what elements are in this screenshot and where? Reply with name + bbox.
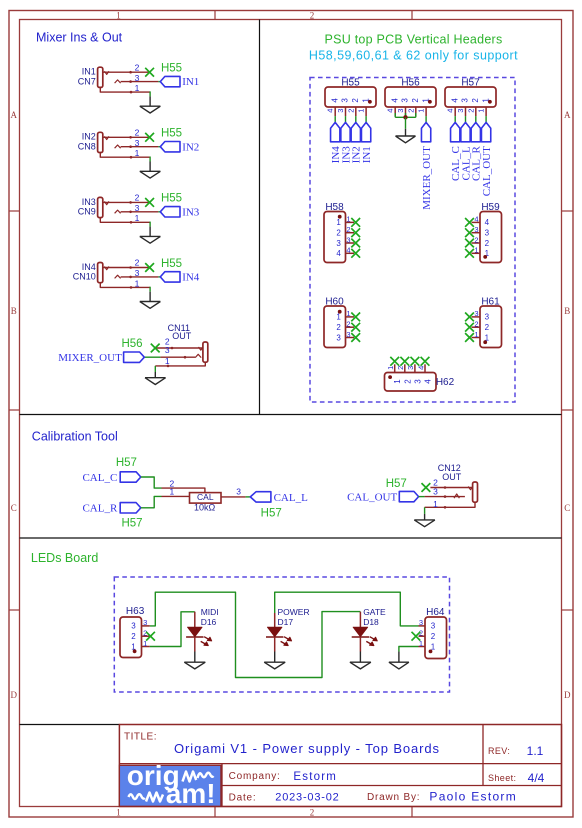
CN12 pin 2 bbox=[430, 487, 471, 489]
pin header H64 bbox=[425, 617, 447, 659]
H63 pin 1 bbox=[142, 646, 150, 648]
H57 pin 1 bbox=[485, 107, 487, 116]
svg-text:Calibration Tool: Calibration Tool bbox=[32, 429, 118, 443]
D16 cathode wire to ground bbox=[194, 637, 196, 652]
H60 pin 2 bbox=[346, 326, 355, 328]
ground bbox=[140, 170, 161, 172]
LEDs dashed board box bbox=[114, 577, 449, 692]
hierarchical label IN4 bbox=[160, 272, 180, 282]
svg-text:2: 2 bbox=[310, 10, 315, 20]
svg-text:3: 3 bbox=[431, 622, 436, 631]
H57 pin1 marker dot bbox=[488, 100, 492, 104]
hierarchical label IN1 (vertical) bbox=[361, 122, 370, 141]
svg-text:2: 2 bbox=[346, 225, 350, 234]
svg-text:3: 3 bbox=[396, 109, 405, 113]
svg-text:H56: H56 bbox=[401, 77, 420, 88]
svg-text:4: 4 bbox=[336, 249, 341, 258]
CN8 pin 3 bbox=[121, 146, 159, 148]
hierarchical label CAL_C (vertical) bbox=[451, 122, 460, 141]
H58 pin1 marker dot bbox=[338, 215, 342, 219]
svg-text:4/4: 4/4 bbox=[528, 771, 545, 785]
pot pin 3 bbox=[221, 496, 246, 498]
section divider h2 bbox=[20, 537, 562, 539]
frame zone ticks bbox=[214, 11, 216, 20]
svg-text:MIXER_OUT: MIXER_OUT bbox=[58, 352, 122, 364]
LED D16 bbox=[194, 612, 196, 628]
no-connect X on H62 pin 3 bbox=[411, 357, 420, 366]
no-connect X on H62 pin 2 bbox=[400, 357, 409, 366]
svg-text:3: 3 bbox=[165, 345, 170, 355]
H64 pin 3 bbox=[419, 625, 426, 627]
no-connect X on H60 pin 1 bbox=[351, 313, 360, 322]
svg-text:1: 1 bbox=[116, 10, 121, 20]
no-connect X on H61 pin 1 bbox=[465, 333, 474, 342]
svg-text:H55: H55 bbox=[161, 63, 182, 75]
svg-text:C: C bbox=[11, 503, 17, 513]
H59 pin 2 bbox=[472, 242, 481, 244]
svg-text:1.1: 1.1 bbox=[527, 744, 544, 758]
svg-text:C: C bbox=[564, 503, 570, 513]
svg-text:3: 3 bbox=[433, 487, 438, 497]
svg-text:1: 1 bbox=[346, 215, 350, 224]
svg-text:3: 3 bbox=[456, 109, 465, 113]
svg-text:TITLE:: TITLE: bbox=[124, 732, 157, 743]
svg-text:3: 3 bbox=[346, 330, 350, 339]
svg-text:H57: H57 bbox=[386, 478, 407, 490]
ground bbox=[140, 301, 161, 303]
wire H64 pin1 to ground bbox=[399, 647, 419, 652]
wire pin1 to ground bbox=[149, 222, 151, 227]
junction bbox=[403, 115, 407, 119]
no-connect X on H62 pin 1 bbox=[390, 357, 399, 366]
svg-text:1: 1 bbox=[170, 486, 175, 496]
pot pin 1 bbox=[162, 495, 190, 497]
potentiometer CAL bbox=[190, 493, 222, 504]
svg-text:H57: H57 bbox=[121, 518, 142, 530]
H60 pin 3 bbox=[346, 337, 355, 339]
CN10 pin 1 bbox=[100, 283, 150, 288]
pin header H56 bbox=[385, 87, 436, 107]
CN11 pin 2 bbox=[155, 347, 202, 349]
H58 pin 3 bbox=[346, 242, 355, 244]
H58 pin 4 bbox=[346, 252, 355, 254]
svg-text:H55: H55 bbox=[341, 77, 360, 88]
wire pin3 to label bbox=[158, 276, 160, 278]
svg-text:1: 1 bbox=[135, 278, 140, 288]
no-connect X on H58 pin 4 bbox=[351, 249, 360, 258]
H55 pin 1 bbox=[365, 107, 367, 116]
H57 pin 3 bbox=[465, 107, 467, 116]
pin header H59 bbox=[480, 212, 502, 263]
D16 emission arrows bbox=[204, 637, 210, 640]
svg-text:4: 4 bbox=[330, 98, 339, 103]
ground bbox=[140, 105, 161, 107]
svg-text:Drawn By:: Drawn By: bbox=[367, 792, 420, 803]
svg-text:H64: H64 bbox=[426, 607, 445, 618]
no-connect X on CN9 pin 2 bbox=[145, 198, 154, 207]
H62 pin 1 bbox=[394, 364, 396, 372]
pin header H62 bbox=[385, 373, 437, 392]
no-connect X on CN12 pin 2 bbox=[422, 483, 431, 492]
wire pin to label bbox=[345, 116, 347, 122]
wires pins 4,3,2 to ground bbox=[394, 113, 396, 117]
wire pin to label bbox=[355, 116, 357, 122]
svg-text:3: 3 bbox=[406, 366, 415, 370]
svg-text:OUT: OUT bbox=[442, 472, 462, 482]
svg-text:2: 2 bbox=[431, 632, 436, 641]
H60 pin1 marker dot bbox=[338, 310, 342, 314]
no-connect X on H61 pin 3 bbox=[465, 313, 474, 322]
wire pin to label bbox=[485, 116, 487, 122]
svg-text:3: 3 bbox=[131, 622, 136, 631]
D17 cathode wire to ground bbox=[274, 637, 276, 652]
CN11 pin 3 bbox=[160, 356, 195, 358]
no-connect X on H58 pin 1 bbox=[351, 218, 360, 227]
no-connect X on H59 pin 2 bbox=[465, 239, 474, 248]
no-connect X on CN8 pin 2 bbox=[145, 133, 154, 142]
svg-text:PSU top PCB Vertical Headers: PSU top PCB Vertical Headers bbox=[325, 33, 503, 47]
hierarchical label IN3 (vertical) bbox=[341, 122, 350, 141]
svg-text:3: 3 bbox=[336, 109, 345, 113]
svg-text:1: 1 bbox=[474, 246, 478, 255]
section divider h1 bbox=[20, 414, 562, 416]
svg-text:1: 1 bbox=[336, 313, 341, 322]
H59 pin 3 bbox=[472, 232, 481, 234]
LED D18 bbox=[359, 612, 361, 628]
svg-text:IN1: IN1 bbox=[361, 146, 373, 163]
svg-text:1: 1 bbox=[116, 807, 121, 817]
wire pin1 to ground bbox=[149, 91, 151, 96]
svg-text:Paolo Estorm: Paolo Estorm bbox=[429, 790, 517, 804]
no-connect X on H59 pin 3 bbox=[465, 228, 474, 237]
svg-text:1: 1 bbox=[386, 366, 395, 370]
svg-text:2: 2 bbox=[336, 323, 341, 332]
H60 pin 1 bbox=[346, 316, 355, 318]
no-connect X on CN7 pin 2 bbox=[145, 68, 154, 77]
svg-text:1: 1 bbox=[135, 213, 140, 223]
svg-text:3: 3 bbox=[419, 618, 423, 627]
svg-text:CAL_L: CAL_L bbox=[274, 492, 309, 504]
LED D17 bbox=[274, 613, 276, 627]
svg-text:CAL: CAL bbox=[197, 492, 214, 502]
svg-text:2: 2 bbox=[474, 320, 478, 329]
H61 pin1 marker dot bbox=[483, 340, 487, 344]
svg-text:3: 3 bbox=[336, 239, 341, 248]
hierarchical label CAL_R (vertical) bbox=[471, 122, 480, 141]
svg-text:3: 3 bbox=[341, 98, 350, 103]
no-connect X on H62 pin 4 bbox=[421, 357, 430, 366]
wire pin to label bbox=[454, 116, 456, 122]
ground bbox=[414, 519, 435, 521]
svg-text:10kΩ: 10kΩ bbox=[194, 502, 216, 512]
ground bbox=[389, 661, 409, 663]
svg-text:1: 1 bbox=[135, 148, 140, 158]
ground bbox=[145, 377, 166, 379]
hierarchical label CAL_L bbox=[250, 492, 271, 502]
svg-text:IN4: IN4 bbox=[82, 262, 96, 272]
H61 pin 2 bbox=[472, 326, 481, 328]
H56 pin 1 bbox=[425, 107, 427, 116]
H55 pin 3 bbox=[345, 107, 347, 116]
svg-text:3: 3 bbox=[135, 203, 140, 213]
svg-text:4: 4 bbox=[346, 246, 350, 255]
svg-text:CN8: CN8 bbox=[78, 141, 96, 151]
svg-text:H59: H59 bbox=[481, 202, 500, 213]
svg-text:MIXER_OUT: MIXER_OUT bbox=[421, 146, 433, 210]
H61 pin 3 bbox=[472, 316, 481, 318]
wire pin1 to ground bbox=[424, 507, 426, 514]
no-connect X on H59 pin 1 bbox=[465, 249, 474, 258]
svg-text:3: 3 bbox=[413, 379, 422, 384]
svg-text:2: 2 bbox=[336, 229, 341, 238]
svg-text:2: 2 bbox=[485, 239, 490, 248]
wire pin3 to label bbox=[158, 211, 160, 213]
title block outline bbox=[119, 725, 561, 807]
hierarchical label IN3 bbox=[160, 207, 180, 217]
svg-text:IN4: IN4 bbox=[182, 272, 200, 284]
wire pin3 to CAL_L bbox=[246, 496, 251, 498]
svg-text:Company:: Company: bbox=[229, 771, 281, 782]
wire pin3 to label bbox=[158, 81, 160, 83]
H64 pin 1 bbox=[419, 646, 426, 648]
svg-text:IN2: IN2 bbox=[82, 132, 96, 142]
svg-text:1: 1 bbox=[477, 109, 486, 113]
svg-text:H56: H56 bbox=[121, 338, 142, 350]
CN9 pin 1 bbox=[100, 217, 150, 222]
H55 pin1 marker dot bbox=[368, 100, 372, 104]
H64 pin1 marker dot bbox=[429, 650, 433, 654]
CN10 pin 3 bbox=[121, 276, 159, 278]
svg-text:H57: H57 bbox=[461, 77, 480, 88]
svg-text:3: 3 bbox=[336, 333, 341, 342]
pin header H61 bbox=[480, 306, 502, 348]
no-connect X on H58 pin 2 bbox=[351, 228, 360, 237]
PSU dashed support box bbox=[310, 78, 515, 403]
svg-text:H58: H58 bbox=[325, 202, 344, 213]
wire pin to label bbox=[365, 116, 367, 122]
svg-text:CAL_OUT: CAL_OUT bbox=[481, 146, 493, 196]
audio jack CN8 bbox=[98, 132, 103, 152]
svg-text:1: 1 bbox=[417, 109, 426, 113]
svg-text:3: 3 bbox=[236, 486, 241, 496]
svg-text:A: A bbox=[564, 110, 571, 120]
CN12 pin 1 bbox=[425, 502, 475, 507]
H56 pin 4 bbox=[394, 107, 396, 116]
svg-text:3: 3 bbox=[135, 73, 140, 83]
svg-text:4: 4 bbox=[424, 379, 433, 384]
wire pin1 to ground bbox=[149, 157, 151, 162]
svg-text:1: 1 bbox=[357, 109, 366, 113]
D18 emission arrows bbox=[370, 637, 376, 640]
svg-text:IN1: IN1 bbox=[82, 67, 96, 77]
H61 pin 1 bbox=[472, 337, 481, 339]
svg-text:am!: am! bbox=[166, 778, 216, 809]
svg-text:Date:: Date: bbox=[229, 793, 257, 804]
hierarchical label CAL_OUT (vertical) bbox=[481, 122, 490, 141]
no-connect X on CN11 pin 2 bbox=[151, 344, 160, 353]
H62 pin 3 bbox=[414, 364, 416, 372]
svg-text:2: 2 bbox=[351, 98, 360, 103]
CN9 pin 3 bbox=[121, 211, 159, 213]
CN8 pin 2 bbox=[104, 136, 150, 138]
wire label to pin3 bbox=[419, 496, 425, 498]
svg-text:A: A bbox=[11, 110, 18, 120]
svg-text:2: 2 bbox=[411, 98, 420, 103]
svg-text:2: 2 bbox=[474, 235, 478, 244]
no-connect X on H60 pin 2 bbox=[351, 323, 360, 332]
wire pin to label bbox=[475, 116, 477, 122]
wire pin3 to label bbox=[144, 356, 160, 358]
svg-text:GATE: GATE bbox=[363, 607, 386, 617]
no-connect X on CN10 pin 2 bbox=[145, 263, 154, 272]
svg-text:1: 1 bbox=[346, 309, 350, 318]
svg-text:D: D bbox=[564, 690, 571, 700]
svg-text:H62: H62 bbox=[436, 377, 455, 388]
svg-text:4: 4 bbox=[474, 215, 478, 224]
svg-text:B: B bbox=[564, 306, 570, 316]
svg-text:2: 2 bbox=[396, 366, 405, 370]
svg-text:4: 4 bbox=[446, 109, 455, 113]
svg-text:3: 3 bbox=[461, 98, 470, 103]
audio jack CN10 bbox=[98, 263, 103, 283]
pin header H63 bbox=[120, 617, 142, 658]
svg-text:3: 3 bbox=[485, 229, 490, 238]
CN12 pin 3 bbox=[425, 496, 465, 498]
svg-text:2: 2 bbox=[135, 62, 140, 72]
svg-text:CAL_C: CAL_C bbox=[82, 472, 117, 484]
svg-text:CN9: CN9 bbox=[78, 207, 96, 217]
pin header H58 bbox=[324, 212, 346, 263]
wire CAL_R to pot pin1 bbox=[141, 496, 162, 507]
H59 pin 4 bbox=[472, 221, 481, 223]
svg-text:Mixer Ins & Out: Mixer Ins & Out bbox=[36, 31, 123, 45]
svg-text:4: 4 bbox=[416, 366, 425, 370]
svg-text:2: 2 bbox=[135, 128, 140, 138]
audio jack CN7 bbox=[98, 67, 103, 87]
svg-text:3: 3 bbox=[135, 138, 140, 148]
svg-text:H63: H63 bbox=[126, 606, 145, 617]
svg-text:2: 2 bbox=[310, 807, 315, 817]
svg-text:D: D bbox=[11, 690, 18, 700]
svg-text:2: 2 bbox=[346, 320, 350, 329]
svg-text:Origami V1 - Power supply - To: Origami V1 - Power supply - Top Boards bbox=[174, 741, 440, 756]
wire pin to label bbox=[334, 116, 336, 122]
H56 pin1 marker dot bbox=[428, 100, 432, 104]
svg-text:3: 3 bbox=[346, 235, 350, 244]
svg-text:1: 1 bbox=[393, 379, 402, 384]
hierarchical label IN4 (vertical) bbox=[331, 122, 340, 141]
H58 pin 2 bbox=[346, 232, 355, 234]
CN7 pin 1 bbox=[100, 87, 150, 92]
no-connect X on H60 pin 3 bbox=[351, 333, 360, 342]
H55 pin 2 bbox=[355, 107, 357, 116]
svg-text:OUT: OUT bbox=[172, 331, 192, 341]
ground bbox=[184, 661, 205, 663]
svg-text:IN2: IN2 bbox=[182, 141, 199, 153]
hierarchical label IN2 (vertical) bbox=[351, 122, 360, 141]
svg-text:POWER: POWER bbox=[278, 607, 310, 617]
pin header H57 bbox=[445, 87, 496, 107]
svg-text:3: 3 bbox=[474, 309, 478, 318]
svg-text:Estorm: Estorm bbox=[293, 771, 337, 783]
svg-text:3: 3 bbox=[474, 225, 478, 234]
svg-text:LEDs Board: LEDs Board bbox=[31, 551, 98, 565]
H59 pin1 marker dot bbox=[483, 255, 487, 259]
no-connect X on H58 pin 3 bbox=[351, 239, 360, 248]
ground bbox=[264, 661, 285, 663]
H57 pin 4 bbox=[454, 107, 456, 116]
H63 pin 2 bbox=[142, 635, 150, 637]
no-connect X on H64 pin 2 bbox=[412, 632, 421, 641]
section divider h3 bbox=[20, 724, 120, 726]
svg-text:2: 2 bbox=[346, 109, 355, 113]
wire rail D17 to H64 pin3 bbox=[275, 592, 419, 626]
svg-text:D16: D16 bbox=[201, 617, 217, 627]
svg-text:3: 3 bbox=[135, 268, 140, 278]
svg-text:4: 4 bbox=[326, 109, 335, 113]
svg-text:1: 1 bbox=[135, 83, 140, 93]
CN8 pin 1 bbox=[100, 152, 150, 157]
ground bbox=[396, 135, 416, 137]
svg-text:IN3: IN3 bbox=[182, 206, 200, 218]
H63 pin1 marker dot bbox=[133, 649, 137, 653]
audio jack CN9 bbox=[98, 197, 103, 217]
D17 emission arrows bbox=[284, 637, 290, 640]
audio jack CN12 (mirrored) bbox=[473, 482, 478, 502]
H63 pin 3 bbox=[142, 625, 150, 627]
svg-text:4: 4 bbox=[390, 98, 399, 103]
section divider vertical bbox=[259, 20, 261, 415]
svg-text:2: 2 bbox=[485, 323, 490, 332]
svg-text:3: 3 bbox=[401, 98, 410, 103]
H62 pin1 marker dot bbox=[388, 375, 392, 379]
svg-text:1: 1 bbox=[474, 330, 478, 339]
audio jack CN11 (mirrored) bbox=[203, 342, 208, 362]
hierarchical label IN1 bbox=[160, 76, 180, 86]
svg-text:2: 2 bbox=[403, 379, 412, 384]
svg-text:CAL_R: CAL_R bbox=[82, 503, 118, 515]
svg-text:H55: H55 bbox=[161, 258, 182, 270]
pin header H55 bbox=[325, 87, 376, 107]
H56 pin 2 bbox=[415, 107, 417, 116]
svg-text:H61: H61 bbox=[481, 297, 500, 308]
svg-text:2: 2 bbox=[135, 193, 140, 203]
company logo origami bbox=[119, 765, 220, 806]
wire pin3 to label bbox=[158, 146, 160, 148]
svg-text:H58,59,60,61 & 62 only for sup: H58,59,60,61 & 62 only for support bbox=[309, 49, 518, 63]
H59 pin 1 bbox=[472, 252, 481, 254]
H64 pin 2 bbox=[419, 635, 426, 637]
H57 pin 2 bbox=[475, 107, 477, 116]
H56 pin 3 bbox=[405, 107, 407, 116]
svg-text:MIDI: MIDI bbox=[201, 607, 219, 617]
CN7 pin 3 bbox=[121, 81, 159, 83]
no-connect X on H61 pin 2 bbox=[465, 323, 474, 332]
svg-text:IN3: IN3 bbox=[82, 197, 96, 207]
wire CAL_C to pot pin2 bbox=[141, 477, 162, 488]
wire pin1 to ground bbox=[149, 287, 151, 292]
svg-text:2: 2 bbox=[471, 98, 480, 103]
svg-text:D17: D17 bbox=[278, 617, 294, 627]
svg-text:IN1: IN1 bbox=[182, 76, 199, 88]
ground bbox=[350, 661, 371, 663]
svg-text:3: 3 bbox=[143, 618, 147, 627]
CN10 pin 2 bbox=[104, 267, 150, 269]
H62 pin 4 bbox=[424, 364, 426, 372]
svg-text:4: 4 bbox=[450, 98, 459, 103]
ground bbox=[140, 235, 161, 237]
D18 cathode wire to ground bbox=[359, 637, 361, 652]
